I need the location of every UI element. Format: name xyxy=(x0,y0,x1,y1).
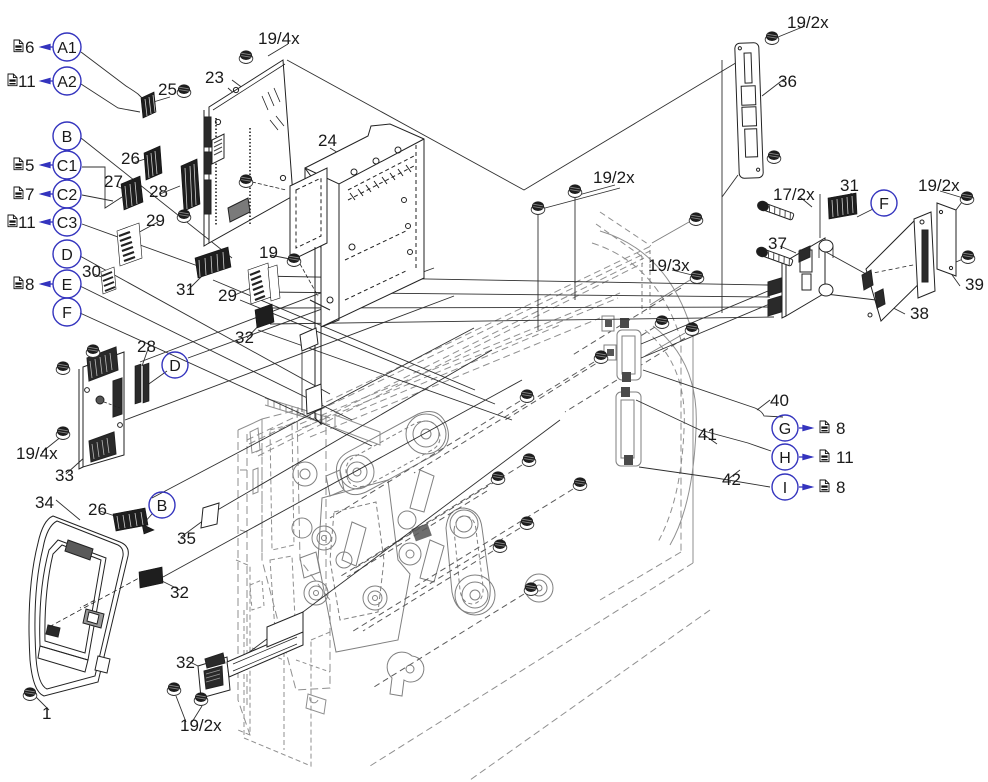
svg-text:31: 31 xyxy=(840,176,859,195)
connector 31 right xyxy=(828,193,857,219)
svg-text:25: 25 xyxy=(158,80,177,99)
svg-text:19/2x: 19/2x xyxy=(787,13,829,32)
svg-text:23: 23 xyxy=(205,68,224,87)
motor bracket plate xyxy=(318,480,410,652)
box 24 xyxy=(290,124,424,424)
plate 36 xyxy=(735,43,764,179)
svg-text:33: 33 xyxy=(55,466,74,485)
comb teeth accents (white lines over combs) xyxy=(117,95,853,529)
connector 28 xyxy=(181,159,200,211)
dark comb connectors xyxy=(101,92,857,588)
svg-text:6: 6 xyxy=(25,38,34,57)
svg-text:40: 40 xyxy=(770,391,789,410)
svg-text:H: H xyxy=(779,450,791,467)
svg-text:19/4x: 19/4x xyxy=(16,444,58,463)
svg-text:27: 27 xyxy=(104,172,123,191)
card 38 + bracket xyxy=(862,212,935,321)
svg-text:B: B xyxy=(157,498,168,515)
dashed screw leader lines xyxy=(330,401,520,518)
board 37 xyxy=(768,238,833,318)
top cover dashed beams xyxy=(247,246,651,440)
svg-text:34: 34 xyxy=(35,493,54,512)
svg-text:C3: C3 xyxy=(57,215,78,232)
svg-text:28: 28 xyxy=(137,337,156,356)
svg-text:F: F xyxy=(62,305,72,322)
DB9 assembly 32 xyxy=(198,612,303,698)
svg-text:39: 39 xyxy=(965,275,984,294)
svg-text:5: 5 xyxy=(25,156,34,175)
svg-text:19/2x: 19/2x xyxy=(180,716,222,735)
long screws 17/2x xyxy=(755,200,794,267)
svg-text:7: 7 xyxy=(25,185,34,204)
board 33 xyxy=(79,347,124,469)
svg-text:26: 26 xyxy=(121,149,140,168)
svg-text:C1: C1 xyxy=(57,158,78,175)
svg-text:19/2x: 19/2x xyxy=(593,168,635,187)
misc brackets xyxy=(326,470,344,496)
svg-text:32: 32 xyxy=(235,328,254,347)
connector 32 small xyxy=(255,304,274,328)
svg-text:11: 11 xyxy=(18,72,36,91)
svg-text:35: 35 xyxy=(177,529,196,548)
svg-text:32: 32 xyxy=(176,653,195,672)
small gears xyxy=(312,526,336,550)
mech wall outline xyxy=(262,410,330,690)
connector 29 second xyxy=(248,263,271,304)
svg-text:11: 11 xyxy=(836,448,854,467)
svg-text:42: 42 xyxy=(722,470,741,489)
svg-text:32: 32 xyxy=(170,583,189,602)
bottom edges xyxy=(370,563,693,766)
lower belt xyxy=(446,508,490,613)
board 23 xyxy=(204,60,293,246)
mechanism middle xyxy=(292,288,685,696)
display 34 xyxy=(29,516,139,696)
right rounded cover xyxy=(600,231,693,563)
connector 30 xyxy=(101,267,116,294)
svg-text:1: 1 xyxy=(42,704,51,723)
connector 27 xyxy=(121,176,143,210)
svg-text:F: F xyxy=(879,196,889,213)
base pedestal xyxy=(244,610,311,766)
svg-text:19/2x: 19/2x xyxy=(918,176,960,195)
svg-text:D: D xyxy=(169,358,181,375)
connector 32 display xyxy=(139,567,163,588)
svg-text:19: 19 xyxy=(259,243,278,262)
svg-text:D: D xyxy=(61,247,73,264)
svg-text:C2: C2 xyxy=(57,187,78,204)
svg-text:11: 11 xyxy=(18,213,36,232)
hatched top strip xyxy=(265,398,330,418)
svg-text:36: 36 xyxy=(778,72,797,91)
svg-text:31: 31 xyxy=(176,280,195,299)
upper belt xyxy=(336,412,448,495)
connector 31 xyxy=(195,247,231,278)
svg-text:17/2x: 17/2x xyxy=(773,185,815,204)
35 pad xyxy=(201,503,219,528)
svg-text:19/3x: 19/3x xyxy=(648,256,690,275)
svg-text:29: 29 xyxy=(146,211,165,230)
svg-text:29: 29 xyxy=(218,286,237,305)
left front wall xyxy=(238,430,250,735)
svg-text:A2: A2 xyxy=(57,74,77,91)
svg-text:30: 30 xyxy=(82,262,101,281)
svg-text:I: I xyxy=(783,480,787,497)
right side connector modules on chassis xyxy=(602,222,690,466)
svg-text:19/4x: 19/4x xyxy=(258,29,300,48)
svg-text:E: E xyxy=(62,277,73,294)
connector 26 xyxy=(144,146,162,180)
svg-text:28: 28 xyxy=(149,182,168,201)
svg-text:B: B xyxy=(62,129,73,146)
connector 28-2 xyxy=(135,364,141,404)
keyhole part xyxy=(387,652,424,696)
plate 39 xyxy=(937,203,956,276)
svg-text:8: 8 xyxy=(836,419,845,438)
svg-text:8: 8 xyxy=(836,478,845,497)
connector 25 xyxy=(141,92,156,118)
svg-text:38: 38 xyxy=(910,304,929,323)
svg-text:24: 24 xyxy=(318,131,337,150)
svg-text:41: 41 xyxy=(698,425,717,444)
svg-text:8: 8 xyxy=(25,275,34,294)
connector 29 xyxy=(117,223,142,266)
svg-text:26: 26 xyxy=(88,500,107,519)
svg-text:A1: A1 xyxy=(57,40,77,57)
svg-text:37: 37 xyxy=(768,234,787,253)
connector 26 display xyxy=(113,508,148,531)
svg-text:G: G xyxy=(779,421,791,438)
upper small pulleys near wall xyxy=(293,462,317,486)
